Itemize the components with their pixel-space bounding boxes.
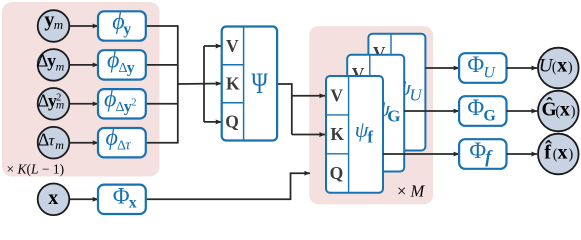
wire psi_G to Phi_G — [404, 110, 459, 112]
arrow into Psi Q — [204, 121, 221, 123]
box phi_dtau — [98, 125, 146, 157]
svg-text:U: U — [483, 64, 496, 81]
svg-text:Φ: Φ — [113, 184, 130, 209]
repeat panel x K(L-1) — [2, 2, 160, 177]
attention box psi_U (back) — [368, 34, 425, 151]
node U(x) — [538, 48, 579, 89]
svg-text:G: G — [387, 107, 400, 126]
wire phi_y to bus — [146, 25, 178, 27]
box phi_y — [98, 9, 146, 41]
svg-text:G: G — [483, 107, 496, 124]
svg-text:K: K — [330, 124, 344, 144]
svg-text:Q: Q — [225, 112, 239, 132]
svg-text:y: y — [123, 21, 131, 38]
node y_m — [38, 9, 70, 42]
box Phi_f — [459, 138, 506, 169]
box Phi_U — [459, 52, 506, 83]
arrow into psi_f V — [291, 95, 325, 97]
arrow into psi_f K — [292, 134, 325, 136]
svg-text:Δ: Δ — [38, 129, 49, 149]
svg-text:m: m — [56, 59, 65, 73]
svg-text:): ) — [571, 103, 576, 119]
wire Phi_U to U(x) — [507, 67, 538, 69]
wire phi_dy to bus — [146, 64, 178, 66]
wire phi_dy2 to bus — [146, 103, 178, 105]
repeat panel x M — [309, 26, 433, 204]
node dy_m — [37, 49, 69, 81]
svg-text:K: K — [226, 74, 240, 94]
svg-text:f: f — [367, 128, 373, 147]
svg-text:2: 2 — [131, 98, 136, 109]
bus vertical — [177, 25, 179, 143]
wire Phi_G to G(x) — [507, 110, 538, 112]
svg-text:× M: × M — [397, 182, 425, 201]
svg-text:m: m — [54, 17, 63, 32]
svg-text:x: x — [48, 187, 58, 209]
svg-text:y: y — [127, 59, 135, 76]
svg-text:x: x — [558, 141, 568, 163]
svg-text:): ) — [569, 146, 574, 162]
wire bus to Psi K with arrow — [178, 83, 222, 86]
node dy2_m — [38, 88, 70, 120]
wire y_m to phi_y — [69, 25, 98, 27]
wire x to Phi_x — [69, 198, 98, 200]
node dtau_m — [38, 127, 70, 159]
svg-text:U: U — [409, 86, 423, 105]
svg-text:Φ: Φ — [467, 52, 484, 77]
svg-text:): ) — [568, 60, 573, 76]
wire Phi_f to f(x) — [507, 153, 538, 155]
node x — [38, 184, 70, 216]
svg-text:Φ: Φ — [469, 138, 486, 163]
svg-text:x: x — [557, 55, 567, 77]
svg-text:× K(L − 1): × K(L − 1) — [7, 161, 65, 176]
arrow into Psi V — [204, 45, 221, 47]
svg-text:Q: Q — [330, 163, 344, 183]
svg-text:V: V — [226, 36, 239, 56]
wire Psi out — [277, 84, 292, 135]
attention box Psi — [222, 27, 277, 141]
box phi_dy — [98, 47, 146, 79]
svg-text:V: V — [330, 85, 343, 105]
wire psi_f to Phi_f — [383, 153, 459, 155]
svg-text:2: 2 — [56, 93, 61, 104]
branch vertical into Psi — [203, 46, 205, 122]
wire dy_m to phi_dy — [69, 64, 98, 66]
attention box psi_f (front) — [326, 76, 383, 193]
wire dy2_m to phi_dy2 — [69, 103, 98, 105]
wire psi_U to Phi_U — [425, 67, 459, 69]
svg-text:Φ: Φ — [467, 95, 484, 120]
svg-text:Ψ: Ψ — [251, 66, 268, 100]
attention box psi_G (middle) — [347, 55, 404, 172]
wire dtau_m to phi_dtau — [69, 142, 98, 144]
node f(x) — [538, 134, 579, 175]
svg-text:x: x — [129, 194, 137, 211]
box Phi_x — [98, 184, 146, 215]
svg-text:Ĝ: Ĝ — [542, 97, 557, 120]
box Phi_G — [459, 95, 506, 126]
node G(x) — [538, 91, 579, 132]
svg-text:m: m — [55, 138, 64, 152]
wire phi_dtau to bus — [146, 142, 178, 144]
svg-text:x: x — [560, 98, 570, 120]
svg-text:τ: τ — [125, 138, 131, 154]
box phi_dy2 — [98, 86, 146, 118]
wire Phi_x out to panel Q row — [146, 173, 310, 199]
